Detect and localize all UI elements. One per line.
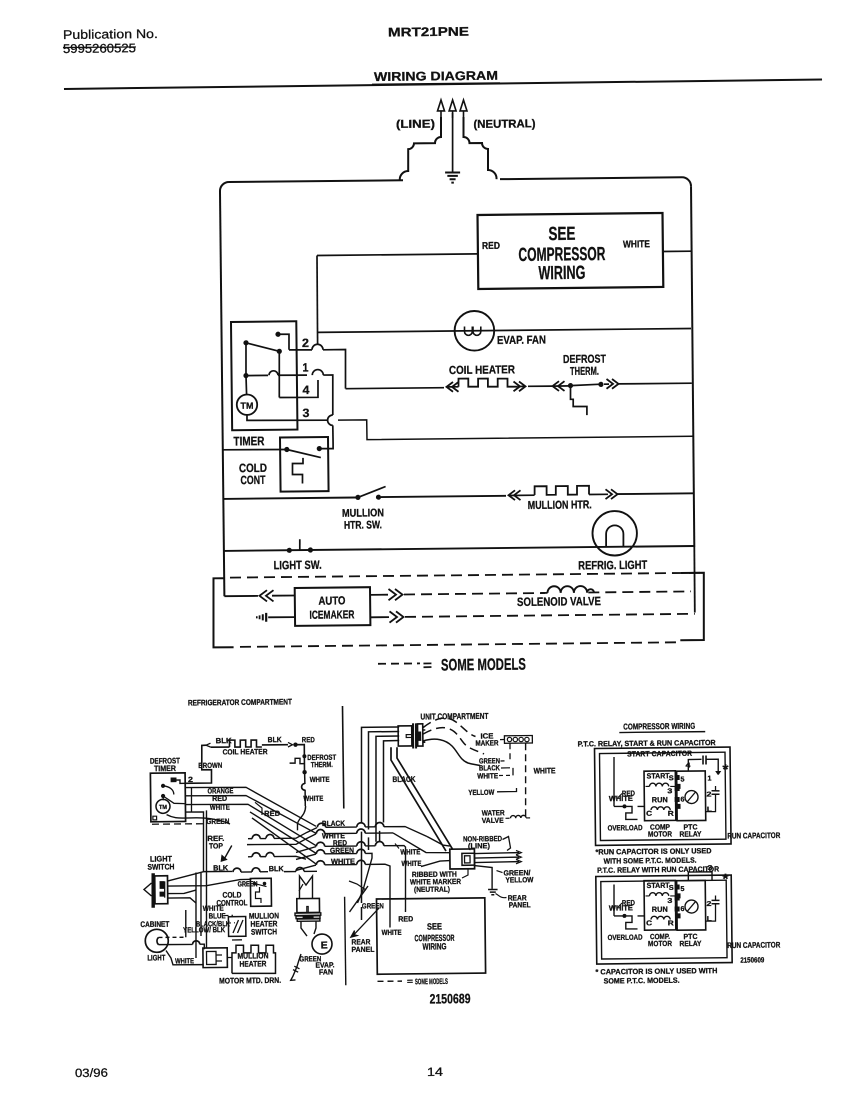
auto icemaker box <box>295 587 371 626</box>
svg-text:RED: RED <box>622 898 636 907</box>
harness diagonals to non-ribbed plug <box>391 747 446 852</box>
svg-text:=: = <box>407 977 414 986</box>
svg-text:S: S <box>669 775 674 782</box>
wire red to compressor box <box>317 254 478 256</box>
svg-text:BLK: BLK <box>268 735 283 744</box>
ref top arrow <box>225 846 232 859</box>
svg-text:5995260525: 5995260525 <box>63 41 136 56</box>
wire timer terminal 3 from TM <box>247 414 328 421</box>
main wire through <box>638 915 645 917</box>
svg-text:PANEL: PANEL <box>509 900 531 909</box>
svg-text:AUTO: AUTO <box>318 595 345 607</box>
svg-text:2: 2 <box>302 336 309 350</box>
connector chevrons defrost left <box>558 381 565 391</box>
wire white from timer <box>185 803 317 847</box>
svg-text:*: * <box>722 870 729 886</box>
wire terminal 2 to coil heater row <box>323 349 346 388</box>
connector chevrons defrost right <box>606 379 613 389</box>
svg-text:SEE: SEE <box>548 224 575 245</box>
main wire through <box>638 805 645 807</box>
outer box corner top-left <box>220 182 229 191</box>
svg-text:TOP: TOP <box>209 841 223 850</box>
wire defrost therm white drop <box>302 770 306 774</box>
cross wires light switch <box>167 879 251 886</box>
timer internal contact top <box>275 332 280 337</box>
svg-text:COIL HEATER: COIL HEATER <box>223 747 269 756</box>
svg-text:CABINET: CABINET <box>140 920 169 929</box>
connector chevrons mullion row left <box>514 490 521 500</box>
svg-text:WHITE: WHITE <box>401 859 421 868</box>
svg-text:RELAY: RELAY <box>679 829 701 838</box>
svg-text:3: 3 <box>667 898 672 905</box>
wire left rail to icemaker <box>224 595 258 597</box>
wire crossing X near rear panel <box>349 886 368 912</box>
svg-text:MULLION HTR.: MULLION HTR. <box>528 499 592 512</box>
water valve coil <box>506 817 511 819</box>
svg-text:2: 2 <box>188 775 193 784</box>
refrigerator light bulb <box>592 511 637 556</box>
dashed green wire <box>152 823 204 826</box>
ground power entry <box>445 171 460 173</box>
comp motor box <box>644 880 676 930</box>
outer box right edge <box>690 186 695 547</box>
svg-text:START: START <box>647 881 670 890</box>
unit compartment plug <box>398 726 412 746</box>
timer motor TM <box>237 394 258 415</box>
svg-text:MOTOR MTD. DRN.: MOTOR MTD. DRN. <box>219 976 281 986</box>
svg-text:HTR. SW.: HTR. SW. <box>344 519 382 531</box>
wire terminal 3 to right rail <box>338 416 693 440</box>
svg-text:EVAP. FAN: EVAP. FAN <box>497 334 546 347</box>
svg-text:BROWN: BROWN <box>198 761 222 770</box>
wire green from timer <box>185 812 204 872</box>
wire red from timer <box>185 794 316 834</box>
connector chevrons coil heater left <box>452 382 459 392</box>
wire vertical inner <box>190 787 193 812</box>
wire red center leader <box>255 802 262 815</box>
start capacitor wiring <box>688 759 701 771</box>
plug prong line <box>437 100 444 118</box>
svg-text:RUN CAPACITOR: RUN CAPACITOR <box>727 831 780 841</box>
svg-text:CONT: CONT <box>240 473 266 487</box>
svg-text:LIGHT SW.: LIGHT SW. <box>274 558 322 573</box>
svg-text:LIGHT: LIGHT <box>147 953 165 962</box>
svg-text:3: 3 <box>667 788 672 795</box>
wire terminal 1 down right rail branch <box>323 375 333 415</box>
wire left rail to cold control <box>223 449 287 450</box>
rear panel vertical line <box>345 897 346 986</box>
terminal 2 hump <box>312 344 323 350</box>
svg-text:RED: RED <box>482 241 500 252</box>
dashed box top <box>230 573 700 578</box>
row WHITE1 <box>247 834 316 845</box>
lower coil heater element <box>229 740 261 748</box>
svg-text:GREEN: GREEN <box>330 846 354 855</box>
svg-text:YELLOW/ BLK: YELLOW/ BLK <box>183 925 226 934</box>
svg-text:MOTOR: MOTOR <box>648 939 673 948</box>
icemaker curves from plug <box>423 718 475 737</box>
wire coil heater right red drop <box>262 744 288 746</box>
svg-text:(NEUTRAL): (NEUTRAL) <box>473 118 535 131</box>
svg-text:P.T.C. RELAY WITH RUN CAPACITO: P.T.C. RELAY WITH RUN CAPACITOR <box>597 864 720 874</box>
svg-text:ICEMAKER: ICEMAKER <box>309 609 355 621</box>
start winding <box>649 783 655 786</box>
svg-text:RELAY: RELAY <box>679 939 701 948</box>
svg-text:* CAPACITOR IS ONLY USED WITH: * CAPACITOR IS ONLY USED WITH <box>595 966 717 976</box>
svg-text:2: 2 <box>706 791 711 798</box>
dashed wire solenoid to right rail <box>588 591 691 592</box>
svg-text:PANEL: PANEL <box>351 945 374 954</box>
wire orange <box>185 786 316 828</box>
wire light row <box>224 546 694 551</box>
svg-text:2150609: 2150609 <box>740 955 764 964</box>
wire mullion heater row <box>223 497 356 498</box>
mullion heater element <box>535 486 590 495</box>
ptc pins <box>675 775 679 779</box>
rear panel arrow <box>354 908 380 935</box>
dashed box bottom <box>240 642 676 647</box>
svg-text:TIMER: TIMER <box>154 764 176 773</box>
icemaker connector <box>504 736 532 744</box>
svg-text:UNIT COMPARTMENT: UNIT COMPARTMENT <box>420 711 489 722</box>
svg-text:SOME MODELS: SOME MODELS <box>415 977 448 986</box>
svg-text:(NEUTRAL): (NEUTRAL) <box>414 885 451 894</box>
svg-text:YELLOW: YELLOW <box>468 788 495 797</box>
svg-text:C: C <box>646 811 652 818</box>
defrost thermostat switch <box>553 385 571 387</box>
defrost timer motor TM <box>156 799 170 813</box>
wires out of non-ribbed plug with arrows <box>474 852 519 855</box>
connector chevrons icemaker left <box>266 590 274 601</box>
wire line prong to box top left <box>399 117 442 180</box>
icemaker ground <box>268 616 294 618</box>
wire blk row <box>167 871 232 881</box>
row RED <box>296 847 316 853</box>
wire red drop to timer <box>317 255 318 344</box>
svg-text:SEE: SEE <box>427 921 442 931</box>
svg-text:MOTOR: MOTOR <box>648 829 673 838</box>
svg-text:4: 4 <box>685 762 690 769</box>
svg-text:RUN: RUN <box>652 795 668 804</box>
wire extra bundle diagonal <box>250 811 316 854</box>
svg-text:FAN: FAN <box>319 967 333 976</box>
svg-text:4: 4 <box>302 383 309 397</box>
svg-text:BLACK: BLACK <box>322 819 346 828</box>
mullion heater connector lower <box>203 948 228 968</box>
svg-text:SOME MODELS: SOME MODELS <box>441 656 526 675</box>
svg-text:WHITE: WHITE <box>175 956 194 965</box>
row GREEN <box>248 856 252 858</box>
terminal 3 hump <box>328 415 333 425</box>
svg-text:SOLENOID VALVE: SOLENOID VALVE <box>517 594 601 609</box>
defrost thermostat capillary <box>570 386 587 416</box>
cold control bellows <box>292 458 303 484</box>
wire neutral prong to ground <box>452 113 453 172</box>
svg-text:3: 3 <box>707 865 712 872</box>
connector chevrons icemaker bottom right <box>389 611 397 622</box>
dashed wire icemaker to rail bottom <box>405 614 695 617</box>
timer box <box>231 321 297 430</box>
legend dashes some models <box>378 662 420 665</box>
svg-text:OVERLOAD: OVERLOAD <box>608 933 644 942</box>
svg-text:E: E <box>321 940 328 951</box>
svg-text:OVERLOAD: OVERLOAD <box>608 823 644 832</box>
svg-text:1: 1 <box>707 775 711 782</box>
svg-text:WHITE: WHITE <box>303 794 323 803</box>
svg-text:WHITE: WHITE <box>310 775 330 784</box>
run winding <box>651 807 657 810</box>
svg-text:COIL HEATER: COIL HEATER <box>449 364 516 377</box>
start winding <box>649 893 655 896</box>
cabinet light bulb <box>145 929 168 952</box>
light switch <box>287 548 292 553</box>
solenoid valve coil <box>547 586 560 593</box>
svg-text:WHITE: WHITE <box>534 766 557 775</box>
ptc relay box <box>677 880 706 930</box>
start capacitor wiring <box>688 872 712 881</box>
wire icemaker out top <box>370 594 388 596</box>
svg-text:(LINE): (LINE) <box>396 119 435 131</box>
svg-text:SWITCH: SWITCH <box>147 862 174 871</box>
svg-text:WIRING: WIRING <box>422 941 446 951</box>
ptc disc <box>685 900 698 913</box>
svg-text:C: C <box>646 920 652 927</box>
compressor wiring box <box>478 213 664 289</box>
mullion heater switch symbol <box>228 917 246 937</box>
compressor panel box <box>596 875 732 964</box>
left supply wire <box>613 885 616 916</box>
defrost timer box <box>150 773 185 822</box>
left supply wire <box>613 757 614 806</box>
see compressor wiring box lower <box>376 898 485 974</box>
overload jog <box>626 916 638 929</box>
wires into nonribbed plug from bundle <box>393 832 450 853</box>
terminal 1 hump <box>312 370 323 376</box>
svg-text:WHITE: WHITE <box>623 239 650 250</box>
svg-text:GREEN: GREEN <box>362 901 384 910</box>
title rule <box>64 79 822 89</box>
wires to evap fan motor <box>301 921 307 936</box>
svg-text:03/96: 03/96 <box>75 1066 109 1080</box>
ptc pins <box>675 885 679 889</box>
svg-text:MRT21PNE: MRT21PNE <box>388 25 469 40</box>
mullion heater switch <box>355 495 360 500</box>
svg-text:14: 14 <box>427 1065 444 1079</box>
svg-text:WIRING: WIRING <box>538 263 585 285</box>
svg-text:COMPRESSOR WIRING: COMPRESSOR WIRING <box>623 721 695 732</box>
svg-text:RED: RED <box>264 809 281 818</box>
svg-text:YELLOW: YELLOW <box>505 875 534 884</box>
svg-text:RED: RED <box>622 789 636 798</box>
svg-text:R: R <box>668 920 674 927</box>
ptc relay box <box>677 771 706 821</box>
wire white into bundle <box>297 806 306 830</box>
svg-text:HEATER: HEATER <box>239 959 266 968</box>
svg-text:VALVE: VALVE <box>482 816 504 825</box>
svg-text:WHITE: WHITE <box>477 771 498 780</box>
wire right rail to solenoid <box>693 547 696 612</box>
overload jog <box>626 806 638 819</box>
lower defrost thermostat <box>290 758 305 764</box>
wire white compressor box to right rail <box>663 250 691 252</box>
svg-text:TM: TM <box>240 401 253 411</box>
svg-text:SOME P.T.C. MODELS.: SOME P.T.C. MODELS. <box>604 976 680 986</box>
compartment divider line <box>342 706 343 809</box>
evap fan motor lower <box>312 934 332 954</box>
svg-text:START CAPACITOR: START CAPACITOR <box>627 749 693 759</box>
wire timer terminal 1 <box>246 374 268 376</box>
svg-text:THERM.: THERM. <box>570 366 599 378</box>
wire timer terminal 4 <box>279 380 318 398</box>
cold control box <box>280 437 329 492</box>
svg-text:6: 6 <box>680 906 684 913</box>
svg-text:1: 1 <box>302 360 308 374</box>
run winding <box>651 916 657 919</box>
wire coil heater row <box>345 388 444 389</box>
svg-text:MULLION: MULLION <box>342 507 384 519</box>
svg-text:WHITE: WHITE <box>331 857 355 866</box>
svg-text:2150689: 2150689 <box>429 991 470 1006</box>
outer box top edge right segment <box>500 177 682 179</box>
svg-text:R: R <box>668 811 674 818</box>
outer box corner top-right <box>682 177 691 186</box>
left bundle verticals <box>195 873 197 959</box>
evap ground <box>290 954 301 980</box>
svg-text:TM: TM <box>159 805 167 811</box>
svg-text:MAKER: MAKER <box>475 738 499 747</box>
svg-text:S: S <box>669 885 674 892</box>
svg-text:5: 5 <box>680 886 684 893</box>
svg-text:REFRIGERATOR COMPARTMENT: REFRIGERATOR COMPARTMENT <box>188 697 292 707</box>
svg-text:3: 3 <box>302 406 309 420</box>
leader dashes <box>224 914 233 916</box>
compressor panel box <box>595 747 732 845</box>
ground rear panel <box>488 888 498 890</box>
svg-text:5: 5 <box>680 776 684 783</box>
evap fan motor <box>454 311 494 351</box>
svg-text:(LINE): (LINE) <box>468 841 491 850</box>
light switch body <box>151 873 155 908</box>
defrost timer internals <box>171 778 176 782</box>
dashed box some models left bracket <box>213 578 234 647</box>
row WHITE2 <box>296 865 316 870</box>
non-ribbed plug <box>450 849 475 869</box>
row BLACK <box>250 838 253 840</box>
wire icemaker out bottom <box>370 616 389 618</box>
svg-text:WHITE: WHITE <box>382 928 402 937</box>
svg-text:RED: RED <box>302 735 316 744</box>
wire green-yellow ground <box>474 865 492 889</box>
harness from plug to left bundle <box>360 727 400 823</box>
timer internal switch <box>243 340 248 345</box>
svg-text:=: = <box>423 657 432 673</box>
svg-text:2: 2 <box>706 901 711 908</box>
svg-text:REFRIG. LIGHT: REFRIG. LIGHT <box>578 558 648 573</box>
svg-text:Publication No.: Publication No. <box>63 27 158 42</box>
connector chevrons mullion row right <box>589 493 608 495</box>
mullion heater element lower <box>232 945 276 974</box>
cold control contacts <box>284 447 289 452</box>
ptc disc <box>685 790 698 803</box>
svg-text:THERM.: THERM. <box>311 760 333 769</box>
svg-text:BLK: BLK <box>216 736 233 745</box>
svg-text:6: 6 <box>680 796 684 803</box>
svg-text:RED: RED <box>398 914 414 923</box>
wires cabinet light <box>184 910 187 937</box>
cold control lower box <box>250 878 271 906</box>
icemaker right dashed drop <box>525 743 527 816</box>
connector chevrons coil heater right <box>517 385 524 387</box>
svg-text:TIMER: TIMER <box>233 434 264 448</box>
coil heater element <box>458 378 517 387</box>
svg-text:SWITCH: SWITCH <box>251 927 277 936</box>
svg-text:BLK: BLK <box>269 864 285 873</box>
outer box left edge <box>220 191 224 596</box>
wire coil heater left to brown drop <box>211 746 229 748</box>
evap fan connector block <box>299 876 312 899</box>
legend some models lower <box>377 980 401 982</box>
dashed wire to solenoid <box>404 593 545 595</box>
wire neutral prong to box top right <box>463 117 496 180</box>
svg-text:WHITE: WHITE <box>400 847 420 856</box>
comp motor box <box>644 771 676 821</box>
svg-text:START: START <box>647 771 670 780</box>
outer box top edge left segment <box>229 180 403 182</box>
wire evap fan row <box>317 328 691 332</box>
svg-text:DEFROST: DEFROST <box>563 354 606 366</box>
svg-text:RUN: RUN <box>652 905 668 914</box>
svg-text:RUN CAPACITOR: RUN CAPACITOR <box>727 940 780 950</box>
svg-text:GREEN: GREEN <box>238 879 258 888</box>
svg-text:*: * <box>722 761 729 777</box>
svg-text:WIRING DIAGRAM: WIRING DIAGRAM <box>374 69 498 84</box>
connector chevrons icemaker top right <box>388 589 396 600</box>
dashed box right bracket <box>680 573 705 641</box>
